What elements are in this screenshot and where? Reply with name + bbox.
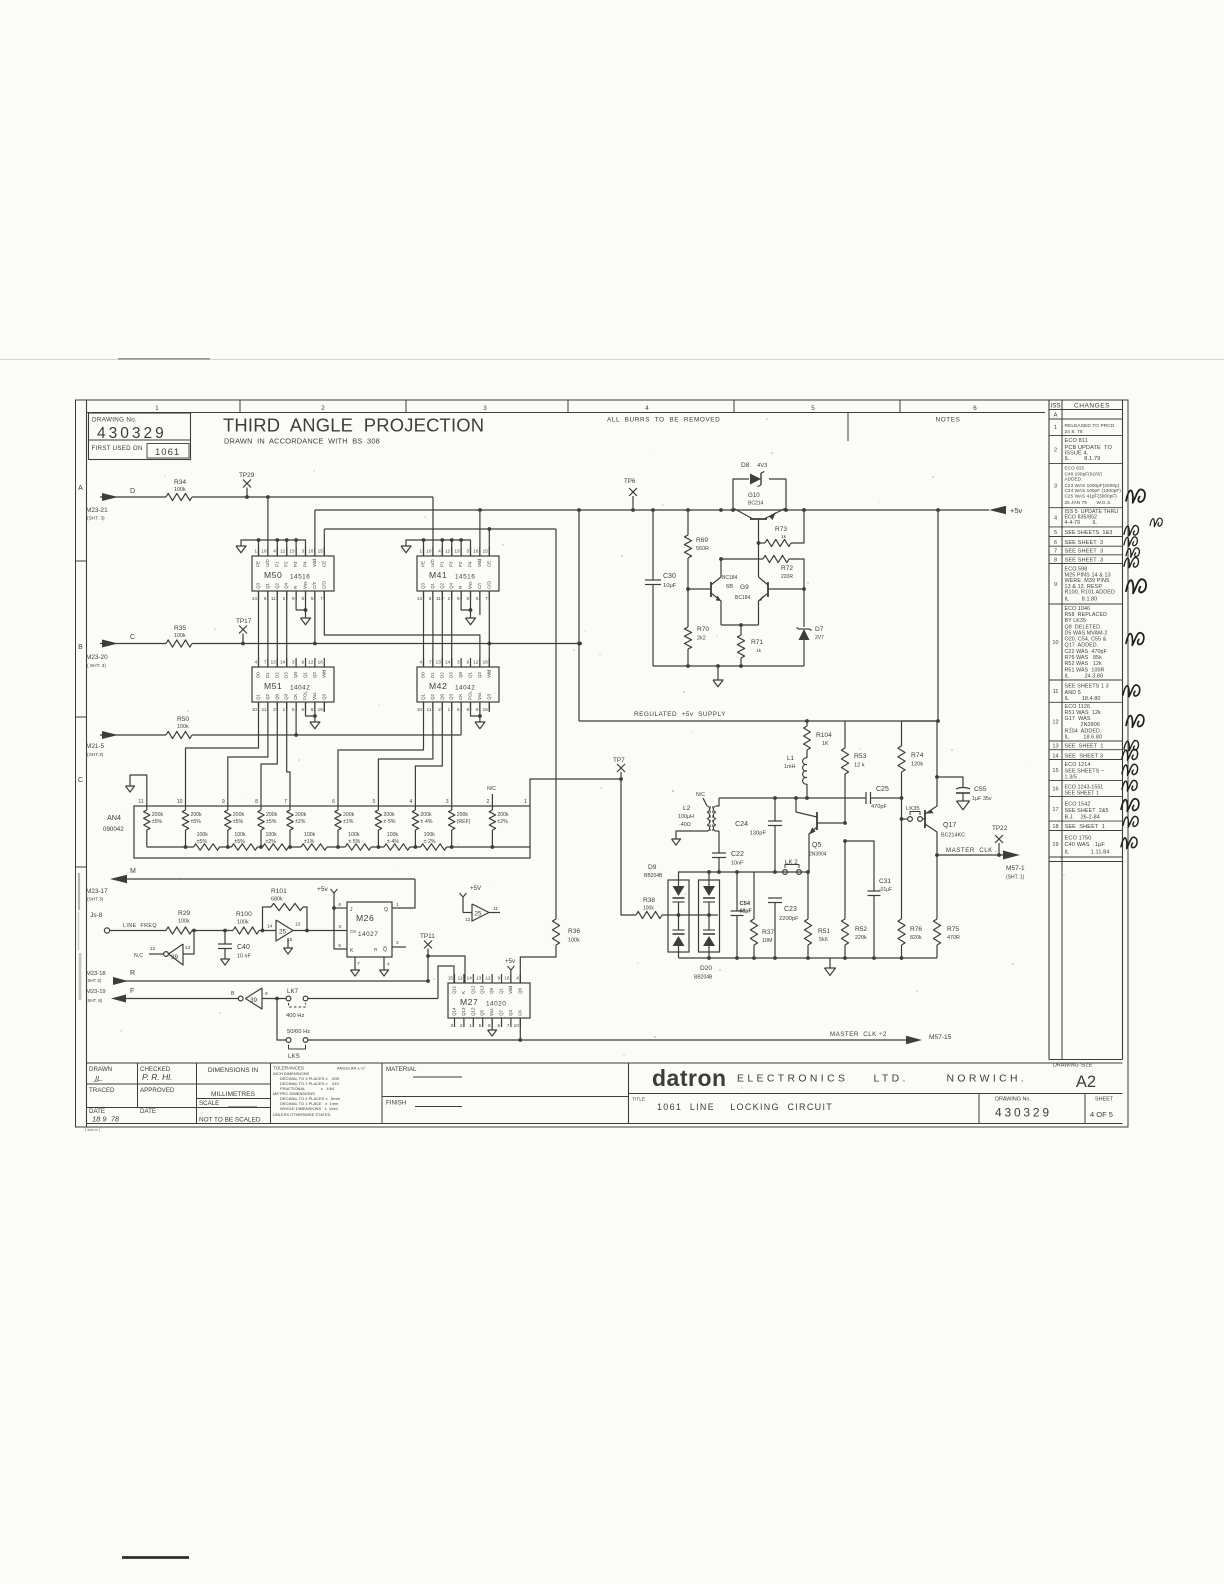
svg-text:NOTES: NOTES — [935, 417, 960, 424]
svg-text:C24: C24 — [735, 821, 748, 828]
svg-text:C54: C54 — [740, 901, 751, 907]
svg-text:200k: 200k — [457, 812, 469, 818]
svg-text:3: 3 — [338, 924, 341, 930]
svg-text:ECO 815: ECO 815 — [1065, 465, 1085, 470]
svg-text:Q3: Q3 — [421, 582, 426, 589]
svg-text:1k: 1k — [781, 534, 787, 540]
svg-text:IL 18.6.80: IL 18.6.80 — [1065, 734, 1103, 740]
wire D line — [100, 496, 166, 498]
svg-text:10: 10 — [252, 707, 258, 712]
svg-text:D0: D0 — [256, 672, 261, 678]
wire M51 Q3 to AN4 pin7 — [287, 702, 290, 806]
svg-text:C31: C31 — [879, 878, 891, 885]
svg-text:Q1: Q1 — [468, 671, 473, 678]
svg-text:9: 9 — [222, 799, 225, 805]
svg-text:D9: D9 — [648, 864, 657, 871]
svg-text:BC214KC: BC214KC — [941, 833, 965, 839]
svg-text:14516: 14516 — [455, 574, 475, 581]
wire AN4 pin1 to TP7 — [530, 779, 621, 806]
svg-text:1: 1 — [283, 707, 286, 712]
svg-text:D7: D7 — [815, 626, 824, 633]
svg-text:M23-19: M23-19 — [86, 989, 106, 995]
svg-text:P2: P2 — [458, 561, 463, 567]
resistor R34 — [166, 493, 192, 500]
capacitor C30 — [652, 510, 654, 580]
svg-text:39: 39 — [250, 997, 258, 1004]
wire M42 Q1 to AN4 pin6 — [338, 702, 424, 806]
svg-text:10: 10 — [177, 799, 183, 805]
svg-text:TP6: TP6 — [624, 478, 636, 485]
svg-text:CK: CK — [293, 694, 298, 700]
svg-text:A2: A2 — [1076, 1073, 1096, 1091]
svg-text:10μF: 10μF — [663, 583, 677, 589]
resistor R52 — [844, 841, 846, 919]
svg-text:Q1: Q1 — [499, 987, 504, 994]
svg-text:P1: P1 — [439, 561, 444, 567]
svg-text:120k: 120k — [911, 762, 923, 768]
flip-flop M26 14027 — [347, 902, 392, 957]
svg-text:2: 2 — [460, 1023, 463, 1028]
resistor R74 — [901, 721, 903, 746]
wire F line — [126, 998, 238, 1000]
svg-text:SEE SHEET 3: SEE SHEET 3 — [1065, 549, 1104, 555]
svg-text:G9: G9 — [740, 584, 749, 591]
svg-text:13: 13 — [436, 660, 442, 665]
AN4 100k chain — [147, 846, 530, 848]
svg-text:1: 1 — [1054, 425, 1057, 431]
svg-text:1: 1 — [469, 1023, 472, 1028]
title block left cells — [137, 1063, 139, 1108]
svg-text:DRAWN IN ACCORDANCE WITH B: DRAWN IN ACCORDANCE WITH BS 308 — [224, 437, 380, 446]
wire rail to regulated — [578, 510, 580, 721]
svg-text:SEE SHEET 3: SEE SHEET 3 — [1065, 540, 1104, 546]
node M output arrow — [110, 875, 127, 883]
svg-text:9: 9 — [265, 991, 268, 997]
svg-text:13: 13 — [1052, 743, 1058, 749]
svg-text:R76 WAS 85k: R76 WAS 85k — [1065, 655, 1103, 661]
handwritten issue initials — [1126, 489, 1145, 502]
svg-text:10: 10 — [1052, 640, 1058, 646]
svg-text:R70: R70 — [697, 626, 709, 633]
svg-text:IL 24.3.80: IL 24.3.80 — [1065, 674, 1104, 680]
svg-text:ALL BURRS TO BE REMOVED: ALL BURRS TO BE REMOVED — [607, 417, 720, 424]
svg-text:1: 1 — [254, 549, 257, 554]
svg-text:Q2: Q2 — [477, 671, 482, 678]
svg-text:D1: D1 — [430, 672, 435, 678]
svg-text:M21-5: M21-5 — [86, 743, 105, 750]
title block outer — [87, 1062, 1123, 1064]
svg-text:4 OF 5: 4 OF 5 — [1090, 1110, 1113, 1119]
svg-text:BY LK35: BY LK35 — [1065, 618, 1087, 624]
svg-text:Q5: Q5 — [480, 1009, 485, 1016]
svg-text:Q0: Q0 — [458, 671, 463, 678]
svg-text:ANGULAR ± ¼°: ANGULAR ± ¼° — [337, 1066, 366, 1071]
wire R50 line — [100, 734, 166, 736]
wire M50 pin stubs — [267, 497, 269, 556]
power label +5v — [989, 506, 1006, 514]
svg-text:N.C: N.C — [134, 953, 143, 959]
resistor R36 — [555, 529, 557, 919]
svg-text:4: 4 — [1054, 515, 1057, 521]
svg-text:±·4%: ±·4% — [387, 839, 399, 845]
svg-text:C25 WAS 41pF(3000pF): C25 WAS 41pF(3000pF) — [1065, 494, 1118, 499]
svg-text:14: 14 — [252, 596, 258, 601]
svg-text:560R: 560R — [696, 546, 709, 552]
svg-text:M57-1: M57-1 — [1006, 865, 1025, 872]
svg-text:Q12: Q12 — [470, 985, 475, 994]
ground M27 Vss — [491, 1018, 493, 1030]
svg-text:6B: 6B — [726, 584, 733, 590]
svg-text:12: 12 — [1052, 720, 1058, 726]
svg-text:PE: PE — [256, 561, 261, 567]
svg-text:100k: 100k — [177, 724, 189, 730]
resistor R51 — [804, 919, 811, 945]
svg-text:100k: 100k — [237, 920, 249, 926]
svg-text:TOLERANCES: TOLERANCES — [273, 1066, 304, 1071]
svg-text:C25: C25 — [876, 786, 889, 793]
svg-text:SEE SHEET 1: SEE SHEET 1 — [1065, 791, 1099, 797]
resistor R101 feedback — [263, 907, 272, 931]
svg-text:datron: datron — [652, 1065, 727, 1091]
ground G circuit — [717, 666, 719, 680]
svg-text:M57-15: M57-15 — [929, 1034, 952, 1041]
drawing number cell — [978, 1094, 980, 1124]
svg-text:(SHT.3): (SHT.3) — [87, 752, 104, 758]
svg-text:R35: R35 — [174, 625, 186, 632]
wire TP11 to M27 — [428, 956, 465, 983]
wire M42 Q2 to AN4 pin5 — [378, 702, 433, 806]
svg-text:11: 11 — [271, 596, 276, 601]
wire M line — [127, 878, 415, 880]
svg-text:I̲L.: I̲L. — [93, 1074, 104, 1083]
svg-text:15: 15 — [318, 549, 324, 554]
svg-text:SCALE: SCALE — [199, 1100, 219, 1107]
svg-text:12 k: 12 k — [854, 763, 865, 769]
wire M42 Q3 stub — [488, 702, 490, 712]
resistor R72 — [763, 555, 789, 562]
wire R76 top — [901, 798, 903, 919]
wire 50-60Hz to LK5 — [277, 999, 286, 1041]
svg-text:10: 10 — [261, 549, 267, 554]
svg-text:SEE SHEET 2&5: SEE SHEET 2&5 — [1065, 808, 1109, 814]
svg-text:P1: P1 — [274, 561, 279, 567]
svg-text:16: 16 — [483, 660, 489, 665]
svg-text:2N3904: 2N3904 — [809, 852, 827, 858]
svg-text:Q̅: Q̅ — [383, 946, 387, 953]
svg-text:DRAWING No.: DRAWING No. — [995, 1097, 1031, 1103]
inductor L1 — [806, 750, 808, 758]
svg-text:3: 3 — [483, 405, 487, 412]
svg-text:5: 5 — [311, 596, 314, 601]
svg-text:10: 10 — [417, 707, 423, 712]
svg-text:R37: R37 — [762, 929, 774, 936]
svg-text:200k: 200k — [191, 812, 203, 818]
svg-text:ADDED.: ADDED. — [1065, 477, 1083, 482]
svg-text:NOT TO BE SCALED: NOT TO BE SCALED — [199, 1117, 261, 1124]
ground M42 POL-Vss — [471, 702, 480, 716]
svg-text:IL 8.1.80: IL 8.1.80 — [1065, 597, 1098, 603]
svg-text:9: 9 — [497, 976, 500, 981]
svg-text:Q0: Q0 — [293, 671, 298, 678]
wire emitter join — [721, 624, 759, 626]
svg-text:SEE SHEET 3: SEE SHEET 3 — [1065, 753, 1104, 759]
wire R line — [113, 980, 428, 982]
inverter gate 39 NC — [183, 931, 194, 955]
scan artifact bottom mark — [122, 1556, 189, 1559]
svg-text:14: 14 — [467, 976, 473, 981]
svg-text:13: 13 — [289, 549, 295, 554]
svg-text:9: 9 — [292, 596, 295, 601]
wire L2 secondary top to node line — [716, 798, 719, 806]
svg-text:14042: 14042 — [290, 685, 310, 692]
resistor network AN4 box — [134, 806, 530, 858]
svg-text:2200pF: 2200pF — [779, 916, 799, 922]
drawing number box — [89, 413, 191, 460]
latch M51 14042 — [252, 667, 334, 702]
wire main node line — [719, 797, 866, 799]
svg-text:4-4-79 IL: 4-4-79 IL — [1065, 520, 1097, 526]
svg-text:C: C — [130, 634, 135, 641]
svg-text:D3: D3 — [284, 672, 289, 678]
svg-text:±5%: ±5% — [197, 839, 208, 845]
svg-text:U/D: U/D — [430, 559, 435, 568]
svg-text:Q1: Q1 — [430, 582, 435, 589]
svg-text:ISS: ISS — [1051, 403, 1061, 410]
svg-text:Q17: Q17 — [943, 822, 956, 829]
diode D7 zener — [803, 589, 805, 627]
drawing size cell — [1049, 1059, 1123, 1061]
svg-text:D1: D1 — [265, 672, 270, 678]
svg-text:Q12: Q12 — [470, 1007, 475, 1016]
wire M50 C/O to M42 — [324, 591, 480, 667]
svg-text:R38: R38 — [643, 897, 655, 904]
svg-text:POL: POL — [468, 690, 473, 700]
svg-text:Q0: Q0 — [274, 693, 279, 700]
capacitor C22 — [716, 830, 719, 832]
svg-text:C23: C23 — [784, 906, 797, 913]
svg-text:14: 14 — [280, 660, 286, 665]
svg-text:25: 25 — [475, 911, 482, 918]
svg-text:220R: 220R — [781, 574, 793, 580]
svg-text:7: 7 — [507, 1023, 510, 1028]
svg-text:M: M — [130, 868, 136, 875]
svg-text:1: 1 — [448, 707, 451, 712]
wire M41 C/I stub — [479, 591, 481, 615]
resistor R100 — [233, 927, 259, 934]
svg-text:25 JAN 79 W.G.S.: 25 JAN 79 W.G.S. — [1065, 500, 1112, 505]
svg-text:C/O: C/O — [321, 581, 326, 590]
material cell — [382, 1096, 629, 1098]
wire M51 Q0 to AN4 pin8 — [261, 702, 277, 806]
svg-text:5: 5 — [373, 799, 376, 805]
svg-text:4V3: 4V3 — [757, 463, 767, 469]
svg-text:SEE SHEET 1: SEE SHEET 1 — [1065, 743, 1104, 749]
svg-text:14: 14 — [445, 660, 451, 665]
svg-text:100k: 100k — [304, 832, 316, 838]
svg-text:D20: D20 — [700, 965, 712, 972]
wire M50 Vdd drop — [314, 510, 316, 556]
svg-text:1mH: 1mH — [784, 764, 795, 770]
svg-text:R34: R34 — [174, 479, 186, 486]
svg-text:15: 15 — [318, 707, 324, 712]
svg-text:R51 WAS 100R: R51 WAS 100R — [1065, 667, 1105, 673]
svg-text:6: 6 — [973, 405, 977, 412]
svg-text:Q3: Q3 — [256, 582, 261, 589]
zone ticks top — [239, 400, 241, 413]
svg-text:17: 17 — [1052, 807, 1058, 813]
resistor R35 — [166, 640, 192, 647]
svg-text:THIRD ANGLE PROJECTION: THIRD ANGLE PROJECTION — [223, 415, 484, 436]
wire M50 C/T to C line — [314, 591, 316, 644]
capacitor C23 — [768, 897, 782, 899]
wire +5v to regulated vertical — [937, 510, 939, 721]
svg-text:FINISH: FINISH — [386, 1100, 406, 1107]
svg-text:5: 5 — [1054, 530, 1057, 536]
svg-text:10: 10 — [426, 549, 432, 554]
svg-text:12: 12 — [445, 549, 451, 554]
wire R36 to M27 — [520, 945, 556, 983]
svg-text:R75: R75 — [947, 926, 959, 933]
svg-text:( SHT. 3): ( SHT. 3) — [87, 663, 106, 669]
svg-text:A: A — [1054, 412, 1058, 418]
resistor R73 — [765, 539, 791, 546]
svg-text:12: 12 — [465, 917, 471, 923]
svg-text:680k: 680k — [271, 897, 283, 903]
wire M41 C/O vertical — [488, 591, 490, 667]
svg-text:LK7: LK7 — [287, 988, 299, 995]
svg-text:9: 9 — [466, 660, 469, 665]
svg-text:C22: C22 — [731, 851, 744, 858]
scan specks — [424, 516, 425, 517]
svg-text:39: 39 — [171, 954, 179, 961]
counter M41 14516 — [417, 556, 499, 591]
svg-text:IL. 8.1.79: IL. 8.1.79 — [1065, 456, 1101, 462]
svg-text:CK: CK — [458, 694, 463, 700]
node master clk — [935, 853, 939, 857]
svg-text:Q6: Q6 — [517, 987, 522, 994]
svg-text:POL: POL — [303, 690, 308, 700]
ground bottom rail — [829, 958, 831, 968]
svg-text:8: 8 — [1054, 558, 1057, 564]
svg-text:7: 7 — [485, 596, 488, 601]
svg-text:SEE SHEETS 1 3: SEE SHEETS 1 3 — [1065, 684, 1109, 690]
svg-text:±5%: ±5% — [152, 819, 163, 825]
svg-text:200k: 200k — [420, 812, 432, 818]
svg-text:Q5: Q5 — [812, 842, 821, 849]
svg-text:LKS: LKS — [288, 1053, 300, 1060]
svg-text:M23-21: M23-21 — [86, 507, 108, 514]
svg-text:D0: D0 — [421, 672, 426, 678]
power rail +5v — [315, 509, 989, 511]
svg-text:10M: 10M — [762, 938, 773, 944]
svg-text:PE: PE — [421, 561, 426, 567]
svg-text:2: 2 — [487, 799, 490, 805]
svg-text:C30: C30 — [663, 573, 676, 580]
svg-text:(SHT. 1): (SHT. 1) — [1006, 875, 1025, 881]
wire M51 Q1 to AN4 pin10 — [186, 702, 259, 806]
svg-text:TP11: TP11 — [420, 933, 435, 940]
svg-text:100k: 100k — [266, 832, 278, 838]
svg-text:4: 4 — [410, 799, 413, 805]
svg-text:BB204B: BB204B — [694, 975, 713, 981]
svg-text:1: 1 — [155, 405, 159, 412]
svg-text:N/C: N/C — [487, 786, 496, 792]
wire gate25 to M26 CK — [293, 930, 347, 932]
svg-text:FIRST USED ON: FIRST USED ON — [92, 445, 143, 452]
svg-text:4: 4 — [645, 405, 649, 412]
svg-text:C40: C40 — [237, 944, 250, 951]
svg-text:B: B — [231, 991, 235, 997]
svg-text:DRAWING No.: DRAWING No. — [92, 417, 137, 424]
svg-text:10nF: 10nF — [731, 861, 744, 867]
svg-text:CHANGES: CHANGES — [1074, 403, 1110, 410]
svg-text:14027: 14027 — [358, 931, 378, 938]
svg-text:APPROVED: APPROVED — [140, 1087, 175, 1094]
svg-text:ELECTRONICS LTD. NORWI: ELECTRONICS LTD. NORWICH. — [737, 1074, 1027, 1085]
svg-text:5: 5 — [476, 596, 479, 601]
svg-text:±2%: ±2% — [295, 819, 306, 825]
svg-text:13: 13 — [185, 945, 191, 951]
svg-text:Q1: Q1 — [256, 693, 261, 700]
svg-text:BC214: BC214 — [748, 501, 764, 507]
svg-text:Vss: Vss — [489, 1008, 494, 1016]
resistor R75 — [936, 855, 938, 919]
capacitor C40 — [224, 931, 226, 945]
svg-text:R69: R69 — [696, 537, 708, 544]
scan artifact smudge left — [78, 873, 80, 910]
svg-text:±2%: ±2% — [266, 839, 277, 845]
svg-text:11: 11 — [493, 906, 498, 912]
ground M26 pin4 — [383, 957, 385, 970]
svg-text:430329: 430329 — [97, 425, 167, 442]
svg-text:IL 1.11.84: IL 1.11.84 — [1065, 850, 1110, 856]
svg-text:5: 5 — [457, 707, 460, 712]
wire TP7 down to R38 — [621, 779, 636, 915]
svg-text:68pF: 68pF — [740, 909, 752, 915]
ground M51 POL-Vss — [306, 702, 315, 716]
svg-text:16: 16 — [504, 976, 510, 981]
svg-text:R: R — [130, 970, 135, 977]
svg-text:N/C: N/C — [696, 792, 705, 798]
svg-text:C: C — [78, 777, 83, 784]
svg-text:Vdd: Vdd — [477, 558, 482, 567]
svg-text:3: 3 — [301, 549, 304, 554]
svg-text:Q8 DELETED.: Q8 DELETED. — [1065, 624, 1102, 630]
svg-text:3: 3 — [450, 1023, 453, 1028]
svg-text:6: 6 — [264, 596, 267, 601]
resistor R38 — [636, 911, 662, 918]
svg-text:M51: M51 — [264, 681, 282, 691]
wire M51 Q2 to AN4 pin9 — [228, 702, 268, 806]
resistor R53 — [844, 721, 846, 748]
wire CE line — [324, 528, 556, 530]
svg-text:TP17: TP17 — [236, 618, 252, 625]
svg-text:SHEET: SHEET — [1095, 1097, 1114, 1103]
svg-text:G10: G10 — [748, 492, 760, 499]
svg-text:7: 7 — [320, 596, 323, 601]
svg-text:3: 3 — [457, 660, 460, 665]
svg-text:130pF: 130pF — [750, 831, 767, 837]
svg-text:Q9: Q9 — [489, 987, 494, 994]
svg-text:200k: 200k — [497, 812, 509, 818]
svg-text:MASTER CLK .: MASTER CLK . — [946, 847, 997, 854]
svg-text:200k: 200k — [343, 812, 355, 818]
wire C line 2 — [192, 643, 580, 645]
wire M50 outputs to M51 — [258, 591, 260, 667]
wire to gate 25 — [259, 930, 276, 932]
svg-text:200k: 200k — [266, 812, 278, 818]
svg-text:A: A — [78, 485, 83, 492]
